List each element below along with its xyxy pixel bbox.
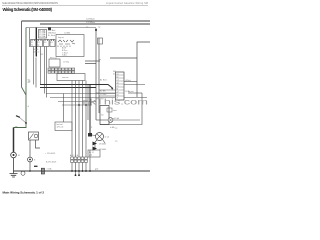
svg-text:seat sw: seat sw: [62, 76, 69, 79]
svg-text:K3: K3: [44, 42, 46, 44]
svg-text:B2 Blk: B2 Blk: [100, 91, 106, 93]
svg-text:f6: f6: [117, 89, 119, 91]
svg-text:Cx: Cx: [86, 27, 88, 29]
svg-text:hour: hour: [113, 109, 117, 112]
svg-text:F4 10A: F4 10A: [39, 35, 46, 38]
svg-text:st sol: st sol: [105, 136, 110, 139]
svg-text:nkThis.com: nkThis.com: [83, 97, 149, 107]
svg-text:rly: rly: [31, 45, 33, 47]
svg-text:g7: g7: [117, 92, 119, 94]
svg-text:B+ Stud: B+ Stud: [48, 34, 55, 37]
svg-text:G2 Red: G2 Red: [33, 52, 39, 54]
svg-text:C3 Gry: C3 Gry: [63, 61, 69, 64]
svg-text:Y2: Y2: [115, 128, 117, 130]
svg-text:12V coil: 12V coil: [57, 127, 64, 129]
svg-text:2x: 2x: [113, 74, 115, 76]
svg-text:Liquid-Cooled Gasoline Wiring: Liquid-Cooled Gasoline Wiring SM: [106, 2, 148, 5]
svg-text:+ 1N 4003: + 1N 4003: [45, 153, 56, 155]
svg-text:A B C D E: A B C D E: [70, 154, 79, 157]
svg-text:C1 White: C1 White: [86, 21, 96, 24]
svg-text:Y3: Y3: [115, 141, 117, 143]
svg-text:e5: e5: [117, 86, 119, 88]
svg-text:PTO sw: PTO sw: [50, 57, 57, 59]
svg-text:b2: b2: [117, 77, 119, 79]
svg-text:B+ out: B+ out: [128, 90, 134, 93]
svg-text:C4 Blk: C4 Blk: [64, 33, 70, 35]
svg-text:Wiring Schematic (SM -040000): Wiring Schematic (SM -040000): [3, 7, 53, 12]
svg-text:oil 15A: oil 15A: [113, 117, 120, 120]
svg-text:c3: c3: [117, 80, 119, 82]
svg-text:D Acc: D Acc: [62, 54, 67, 57]
svg-text:A 1N 4003: A 1N 4003: [46, 161, 57, 164]
svg-text:a1: a1: [117, 74, 119, 76]
svg-text:d4: d4: [117, 83, 119, 85]
svg-text:Section 240: ELECTRICAL OPERAT: Section 240: ELECTRICAL OPERATION, TESTS…: [2, 2, 58, 5]
svg-text:mtr: mtr: [101, 114, 104, 117]
svg-text:1N 4003: 1N 4003: [99, 144, 106, 146]
svg-text:Cy: Cy: [98, 27, 100, 29]
svg-text:rly: rly: [38, 45, 40, 47]
svg-text:sm: sm: [99, 59, 102, 61]
svg-text:Main Wiring Schematic 1 of 2: Main Wiring Schematic 1 of 2: [3, 191, 45, 195]
svg-text:A1 Red: A1 Red: [100, 79, 106, 82]
svg-text:gnd: gnd: [95, 169, 98, 171]
svg-text:gnd: gnd: [89, 155, 92, 157]
svg-text:1 15A: 1 15A: [47, 168, 53, 171]
svg-text:key sw: key sw: [58, 37, 64, 39]
svg-text:C2 Black: C2 Black: [86, 19, 96, 21]
svg-text:F4: F4: [51, 42, 53, 44]
svg-text:lo Blk: lo Blk: [110, 127, 115, 129]
